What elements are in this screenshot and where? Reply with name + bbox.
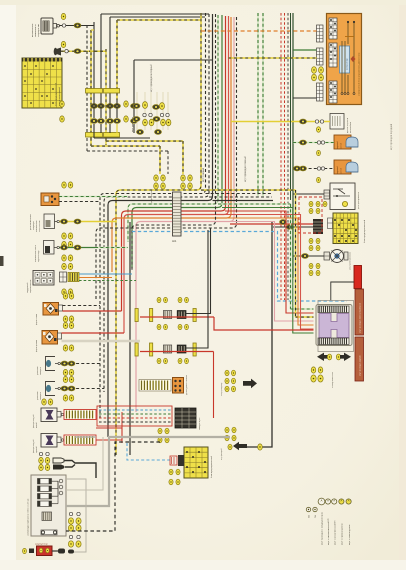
ovals row1 [157,297,161,302]
battery plug left [29,549,34,554]
wire: pale gray stub from E2 [62,340,141,342]
wire: main bundle line x=222 (grn) [132,15,222,268]
legend item 7 (7A) [313,507,317,511]
svg-text:звуковой: звуковой [336,141,339,149]
wire: red dashed x=284.5 [284,13,286,300]
svg-text:Ш1: Ш1 [172,239,177,243]
svg-text:A: A [348,499,350,503]
S4 side connector [60,272,67,282]
svg-text:жгут с левым рулем: жгут с левым рулем [349,524,351,545]
wire: to L2 [61,388,105,390]
svg-text:жгут фонарей: жгут фонарей [220,448,223,460]
fuse box F1 (main fuse block) [22,58,62,108]
relay K3 (orange) [30,193,59,230]
wire: red pair above L4 [96,428,122,440]
wire: red feed to rear connector [230,223,313,225]
wire: switch feeder 7 (grn) [222,208,314,334]
legend item 5 [346,499,351,504]
wire: red to E1 [63,310,122,312]
wire: black drop to row2 [186,230,208,348]
reverse switch S3 [35,241,59,263]
legend item 3 [332,499,337,504]
red dashed outline box [299,197,322,233]
fuel pump M1 [173,374,189,395]
tail lamp L3 [32,408,64,428]
svg-text:выключатель: выключатель [36,220,38,232]
connector cluster: engine harness [132,92,171,134]
ignition coil component K1 [32,18,60,37]
connector marks [60,101,65,107]
F2 side connector [328,218,333,229]
svg-text:аккумулятор: аккумулятор [35,544,48,546]
svg-text:указатель: указатель [37,366,39,375]
scan artifact: left edge mark [0,256,4,266]
wire: black feed to rear connector [273,226,313,228]
wire: black bend to ECU connector [293,97,317,99]
svg-text:жгут двигателя: жгут двигателя [132,116,134,132]
svg-text:A: A [333,499,335,503]
wire: segments joining rows [93,100,95,118]
power plugs P1 [53,458,64,470]
wire: dark green vertical right [292,13,294,278]
svg-text:A: A [341,499,343,503]
battery GB1 [35,544,52,556]
instrument cluster box [28,475,67,536]
wire: blue dashed into F3 area [127,443,170,460]
connector X48 [317,48,324,65]
svg-text:переключатель: переключатель [30,280,32,293]
interconnect connector S1 [172,192,181,243]
svg-text:стартера: стартера [33,221,35,230]
connector ovals rear mid [309,238,313,243]
wire: band black dashed right stubs [206,193,273,195]
ovals cluster below L4 [39,452,42,455]
wire: red through row1 [140,316,214,318]
horn high tone B2 [334,135,358,149]
wire: black vertical from coil [93,22,95,100]
wire: gray harness to cluster [66,437,230,506]
svg-text:фара левая: фара левая [35,314,38,325]
turn lamp front L1 [37,357,60,376]
wire: black line to rear [247,222,272,447]
wire: black dashed to E1 [63,305,101,307]
svg-text:блок предохранителей: блок предохранителей [55,82,58,106]
wire: yellow vertical pair [90,30,92,138]
fuse row 2 [135,343,196,356]
svg-text:жгут с автоматической КП: жгут с автоматической КП [327,518,330,545]
connector cluster: lower engine [150,141,192,205]
wire: black dashed return [66,442,160,531]
svg-text:жгут главный: жгут главный [202,167,205,182]
wire: main bundle line x=201 (ydash) [116,13,201,455]
ovals right of cluster [69,512,72,515]
svg-text:жгут проводов передний: жгут проводов передний [390,123,393,150]
svg-text:сигнал: сигнал [341,168,343,174]
svg-text:жгут проводов главный: жгут проводов главный [244,156,247,182]
rear harness label box 1 [354,266,362,289]
wire: green dashed to horn B2 [293,142,334,144]
legend [306,498,351,545]
wire: switch feeder 5 (org) [225,218,314,325]
svg-text:подрулевой: подрулевой [26,283,29,293]
wire: switch feeder 4 (pnk) [225,222,314,322]
ovals and arrows right of M1 [225,370,229,376]
legend item 4 [339,499,344,504]
svg-text:стоп-сигнала: стоп-сигнала [39,220,41,232]
wire: black dashed x=288 [287,13,289,300]
tail lamp L4 [32,434,64,454]
rear harness label box 3 [355,337,364,381]
svg-text:A: A [321,499,323,503]
svg-text:указатель: указатель [37,391,39,400]
wire: gray thin loop [66,479,86,552]
rear pin connector [313,219,323,234]
wire: blue dashed long run [132,232,347,302]
svg-text:автомобиля: автомобиля [350,122,352,133]
svg-text:блок предохранителей: блок предохранителей [363,219,366,243]
wire: red to E2 [62,332,125,334]
wire: feeds to relay K3 [59,196,128,198]
wire: main bundle line x=218 (gdash) [128,15,218,242]
wire: to L1 [61,363,101,365]
wire: black from plugs [65,461,97,479]
starter relay K2 [330,183,360,210]
ovals around E1 [63,293,68,299]
wire: yellow dashed to ECU [229,57,317,59]
connector 1 on coil wire [61,13,66,19]
headlamp right E2 [35,331,62,353]
switch pack S4 [26,271,54,294]
wire: orange dashed to ECU [201,30,317,32]
svg-text:контроллер: контроллер [347,57,349,70]
svg-text:комбинация приборов и табло κ: комбинация приборов и табло κ счётчик [28,498,30,536]
wire: lower bends to engine connectors [90,138,92,146]
wire: main bundle line x=212.5 (blk) [108,14,213,437]
wire: red through row2 [140,351,214,353]
wire: black vertical [109,17,111,100]
legend item 6 (3A) [306,507,310,511]
rear harness label box 2 [355,289,364,335]
wire: black to relay K2 [293,193,324,195]
horn wire (yellow-black) [61,50,106,52]
svg-text:жгут проводов с кондиционером: жгут проводов с кондиционером [322,512,324,545]
wire: main bundle line x=209 (bdash) [104,14,209,392]
ovals below switch 2 [311,367,316,373]
harness joint connector X5 [97,406,201,430]
wire: black vertical to junction [100,14,102,100]
svg-text:выключатель: выключатель [32,23,34,37]
wire: main bundle line x=228.5 (red2) [124,16,229,333]
ovals below F3 [169,469,173,475]
wire: yellow from S2 [60,221,117,223]
connector ovals rear top [309,201,313,206]
ovals below L2 [63,395,68,401]
svg-text:жгут с правым рулем: жгут с правым рулем [342,523,344,545]
wire: right bundle lines [257,13,259,197]
connector ovals below S3 [62,255,67,261]
fuel sensor T1 [324,250,352,271]
legend item 2 [325,499,330,504]
svg-text:жгут проводов панели приборов: жгут проводов панели приборов [360,303,362,333]
wire: green from S3 [60,247,96,249]
svg-text:A: A [327,499,329,503]
scan artifact: bottom-left page mark [5,563,14,568]
arrows and ovals below switch [317,353,328,361]
wire: switch feeder 3 (ydash) [201,189,296,191]
ECU control unit U1 [327,14,362,105]
wire: black dashed vertical [86,25,88,138]
svg-text:жгут с механической КП: жгут с механической КП [333,520,336,545]
svg-text:электронный блок управления дв: электронный блок управления двигателем [358,52,361,96]
horn B1 [54,48,61,56]
wire: black to sensor T1 [293,255,324,257]
wire: yellow-black dashed vertical [116,20,118,100]
wire: switch feeder 6 (red2) [225,215,314,330]
connector X25 [317,25,324,42]
svg-text:жгут проводов моторный: жгут проводов моторный [150,64,153,92]
brake switch S2 [36,214,59,232]
connector 2 on horn wire [61,41,66,47]
svg-text:блок предохранителей: блок предохранителей [210,455,213,478]
ovals above L3 [42,399,47,405]
horn low tone B3 [334,160,358,174]
svg-text:жгут форсунок: жгут форсунок [150,190,153,205]
svg-text:к жгуту заднему: к жгуту заднему [221,383,223,396]
svg-text:поворота: поворота [40,391,42,400]
svg-text:поворота: поворота [40,366,42,375]
svg-text:электробензонасос: электробензонасос [350,252,352,270]
wire: main bundle line x=234 (pnk) [136,17,234,412]
svg-text:фонарь задний: фонарь задний [32,440,35,453]
svg-text:колодка жгута: колодка жгута [199,417,201,430]
wire: dark green pair on left [290,13,292,200]
svg-text:стартера авт: стартера авт [38,24,40,37]
scan artifact: top edge dash [61,0,66,3]
svg-text:реле включения: реле включения [30,214,32,230]
svg-text:выключатель света: выключатель света [35,244,37,262]
wire: switch feeder 1 (gdash) [218,203,291,205]
wire: yellow feed to speed sensor [231,121,330,123]
ovals below E2 [63,345,68,351]
svg-text:жгут проводов задний: жгут проводов задний [359,356,362,376]
wire from coil to harness [60,25,95,27]
svg-text:реле расцепителя: реле расцепителя [358,192,360,209]
svg-text:левый: левый [35,422,38,428]
inline connectors row 1 [91,104,98,109]
striped harness band to L4 [64,435,96,445]
svg-text:фара правая: фара правая [35,340,38,352]
inline connectors row 2 [91,119,98,124]
svg-text:правый: правый [35,446,38,453]
arrow connector right [243,379,257,389]
fuse box F3 [184,447,213,478]
connector into F3 [170,456,177,465]
wire: switch feeder 2 (red) [225,211,314,313]
connector ovals below S4 [62,289,67,295]
headlamp left E1 [35,303,63,326]
wire: red feeder bends [121,412,123,443]
wire: green solid to ECU [293,49,317,51]
wire: main bundle line x=231 (org) [112,17,231,272]
wire: black to rear connector [258,444,263,450]
wire: dashed to horn B3 [293,168,334,170]
wire: black solid lower left [129,222,131,455]
svg-text:к замку зажигания: к замку зажигания [332,372,334,388]
connector X83 [317,83,324,101]
connector ovals near ECU [312,67,317,74]
wire: extra band rows [132,14,216,272]
striped harness band to L3 [64,410,96,420]
ovals near rear bottom connector [225,427,229,433]
svg-text:сигнал: сигнал [341,143,343,149]
connector ovals between switches [62,233,67,239]
svg-text:звуковой: звуковой [336,166,339,174]
wire: red dashed x=281 [280,13,282,300]
svg-text:датчик уровня топлива: датчик уровня топлива [186,374,188,395]
svg-text:фонарь задний: фонарь задний [32,415,35,428]
fuse links on harness [86,89,103,94]
ovals below L1 [63,369,68,375]
svg-text:датчик скорости: датчик скорости [347,118,349,133]
wire: main bundle line x=225.5 (red) [122,16,226,311]
legend item 1 [318,498,325,505]
wire: black link to label box [331,282,354,301]
wire: main bundle line x=205.5 (bdash) [100,13,206,420]
speed sensor module [330,114,352,134]
ovals row2 [157,358,161,363]
svg-text:зажигания и: зажигания и [35,24,37,37]
wire: yellow dashed vertical [105,49,107,145]
svg-text:заднего хода: заднего хода [38,250,40,262]
ignition/steering switch assembly S5 [316,301,354,352]
fuse row 1 [135,309,196,322]
turn lamp front L2 [37,382,60,401]
relay K2 left stub connector [324,190,330,199]
wire: feeds to S4 [79,273,132,275]
striped harness band to M1 [139,380,171,392]
fuse box F2 (rear) [333,213,366,244]
ovals below joint [158,428,162,434]
battery lead connector [52,550,58,552]
wire: black drop to row1 [186,228,211,314]
